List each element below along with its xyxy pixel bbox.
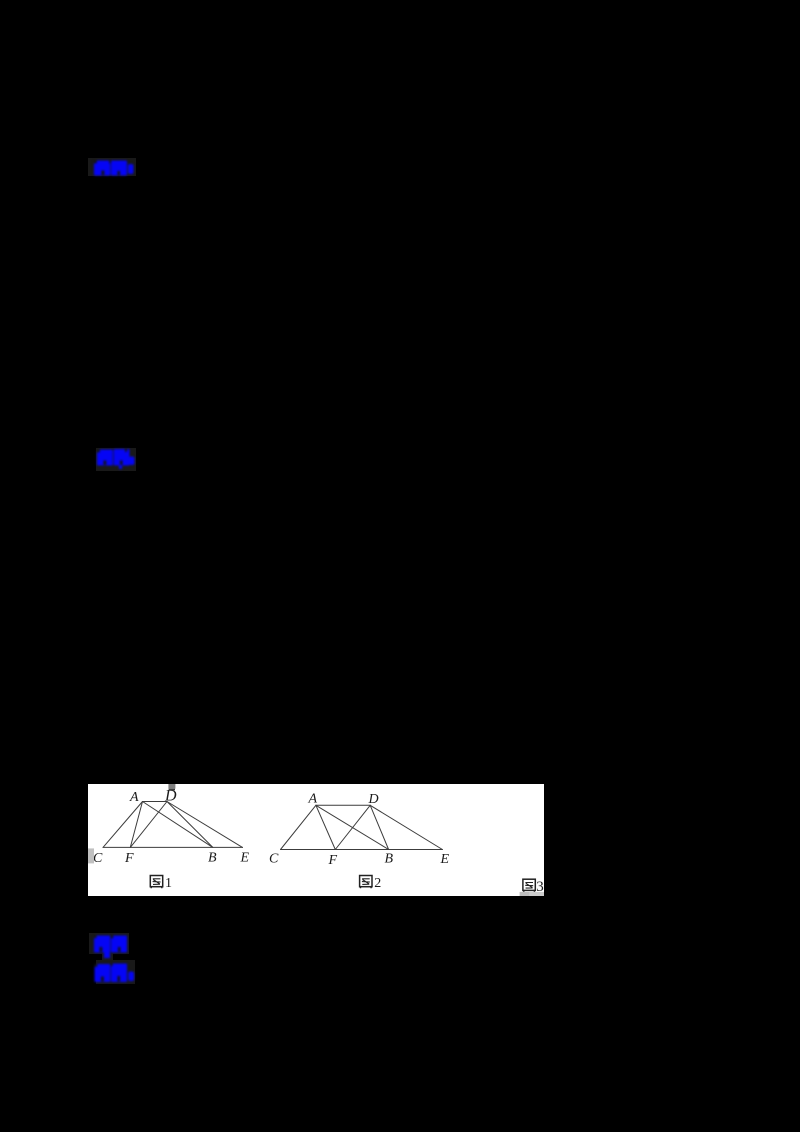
selection handle left (light gray) <box>88 848 94 863</box>
fig2 wire D-F <box>335 805 370 849</box>
svg-text:E: E <box>440 852 450 867</box>
blue label "分析:" (blurred) <box>92 158 138 180</box>
svg-text:D: D <box>368 792 379 807</box>
fig1 wire A-B <box>143 802 213 848</box>
caption glyph 图 of 图1 <box>150 876 162 889</box>
selection handle top dark lower edge <box>169 789 175 791</box>
svg-text:E: E <box>240 851 250 866</box>
svg-text:F: F <box>328 853 338 868</box>
blue label "解答:" (blurred) <box>95 447 139 473</box>
white figure image box <box>88 784 544 896</box>
svg-text:A: A <box>308 792 318 807</box>
svg-text:2: 2 <box>374 876 381 891</box>
svg-text:1: 1 <box>165 876 172 891</box>
fig2 wire A-B <box>316 805 389 849</box>
fig1 wire C-E baseline <box>103 846 243 848</box>
svg-text:C: C <box>269 852 279 867</box>
blue label "分析:" (blurred) <box>92 962 136 986</box>
halo behind label 4 <box>96 960 135 984</box>
fig1 wire A-D <box>143 801 168 803</box>
fig2 wire D-B <box>370 805 388 849</box>
halo behind label 2 <box>96 448 136 471</box>
fig2 wire C-E baseline <box>281 849 443 851</box>
fig1 wire A-F <box>130 802 142 848</box>
caption glyph 图 of 图3 <box>523 879 535 892</box>
fig2 wire A-D <box>316 804 370 806</box>
blue label "变式" (blurred) <box>92 933 134 961</box>
fig1 wire D-E <box>167 802 243 848</box>
selection handle bottom-right bar left part (gray) <box>520 892 530 896</box>
svg-text:B: B <box>385 852 394 867</box>
white background of figure <box>88 784 544 896</box>
fig1 wire A-C <box>103 802 143 848</box>
caption glyph 图 of 图2 <box>360 876 372 889</box>
fig2 wire D-E <box>370 805 442 849</box>
fig1 wire D-B <box>167 802 213 848</box>
fig2 wire A-F <box>316 805 335 849</box>
svg-text:B: B <box>208 851 217 866</box>
selection handle bottom-right bar right part (light gray) <box>530 892 544 896</box>
halo behind label 3 <box>89 933 129 954</box>
halo tail under label 3 <box>102 954 113 964</box>
svg-text:C: C <box>93 851 103 866</box>
svg-text:A: A <box>129 790 139 805</box>
fig2 wire A-C <box>281 805 316 849</box>
selection handle top (gray) <box>168 784 175 789</box>
svg-text:F: F <box>124 851 134 866</box>
fig1 wire D-F <box>130 802 167 848</box>
halo behind label 1 <box>88 158 136 176</box>
